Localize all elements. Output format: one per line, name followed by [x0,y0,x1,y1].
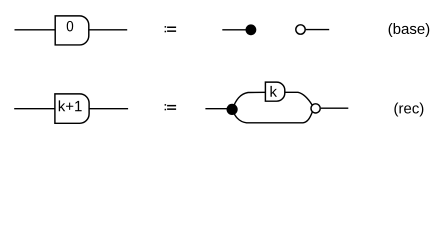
wire row2 left [14,108,55,110]
open circle agent row2 [311,104,320,113]
loop upper wire before k box [233,92,266,108]
agent box 0 (D-shape) [55,16,89,45]
label (base) [389,23,430,37]
label k [270,86,277,97]
wire row1 left [15,29,56,31]
label k+1 [59,100,82,111]
assign symbol := row1 [165,26,177,32]
wire to dup node row2 [205,108,228,110]
wire from open circle row2 [321,107,348,109]
open circle agent row1 [296,25,305,34]
dup filled circle row2 [227,104,238,115]
assign symbol := row2 [165,104,177,110]
wire row2 right of box [89,108,128,110]
filled circle agent row1 [246,24,257,35]
k box (small D-shape) [265,82,284,101]
label 0 [67,21,73,32]
wire from open circle row1 [306,29,329,31]
loop upper wire after k box [285,92,313,105]
label (rec) [394,103,423,117]
wire to filled agent row1 [222,29,247,31]
loop lower wire [232,110,312,123]
agent box k+1 (D-shape) [55,94,89,123]
wire row1 right of box [89,29,127,31]
